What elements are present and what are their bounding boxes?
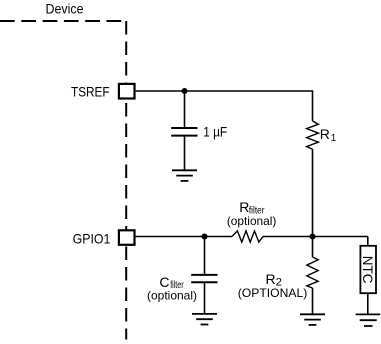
- label Rfilter: [239, 199, 265, 217]
- svg-text:GPIO1: GPIO1: [73, 230, 111, 246]
- device boundary dashed horizontal line: [0, 20, 121, 22]
- svg-text:(OPTIONAL): (OPTIONAL): [238, 286, 308, 300]
- ground under 1 uF capacitor: [172, 170, 197, 181]
- svg-text:R: R: [266, 271, 276, 287]
- resistor R2: [307, 257, 318, 288]
- wire capacitor bottom to ground: [184, 136, 186, 170]
- pin box GPIO1: [119, 230, 135, 245]
- svg-text:(optional): (optional): [147, 288, 197, 302]
- ground under Cfilter: [192, 314, 217, 325]
- wire R2 bottom to ground: [312, 288, 314, 314]
- svg-text:TSREF: TSREF: [71, 83, 110, 99]
- svg-text:C: C: [159, 274, 169, 290]
- wire TSREF to R1 corner: [135, 91, 313, 121]
- ground under NTC: [356, 314, 381, 326]
- svg-text:(optional): (optional): [227, 214, 277, 228]
- label Cfilter: [159, 274, 184, 291]
- wire dot to Cfilter top: [204, 237, 206, 275]
- svg-text:R: R: [320, 126, 330, 142]
- node junction dot on TSREF net: [182, 88, 188, 94]
- node junction dot right: [310, 234, 316, 240]
- label R1: [320, 126, 337, 144]
- resistor Rfilter: [232, 231, 263, 242]
- capacitor 1 uF: [171, 128, 197, 136]
- svg-text:1 µF: 1 µF: [203, 124, 227, 140]
- wire GPIO1 to Rfilter: [135, 236, 232, 238]
- label R2: [266, 271, 282, 289]
- node junction dot on GPIO1 net: [202, 234, 208, 240]
- device boundary dashed vertical line: [125, 21, 127, 340]
- wire Cfilter bottom to ground: [204, 282, 206, 313]
- wire R1 bottom to node: [312, 149, 314, 236]
- thermistor NTC box: [360, 246, 376, 293]
- svg-text:NTC: NTC: [360, 256, 376, 284]
- resistor R1: [307, 121, 319, 149]
- ground under R2: [300, 314, 325, 325]
- pin box TSREF: [119, 84, 135, 99]
- capacitor Cfilter: [191, 275, 217, 282]
- wire NTC bottom to ground: [367, 294, 369, 314]
- svg-text:Device: Device: [46, 1, 84, 17]
- wire Rfilter to NTC: [263, 236, 368, 238]
- svg-text:1: 1: [331, 133, 337, 144]
- wire dot to capacitor C top: [184, 91, 186, 128]
- wire node to NTC top: [367, 237, 369, 246]
- wire node to R2 top: [312, 237, 314, 258]
